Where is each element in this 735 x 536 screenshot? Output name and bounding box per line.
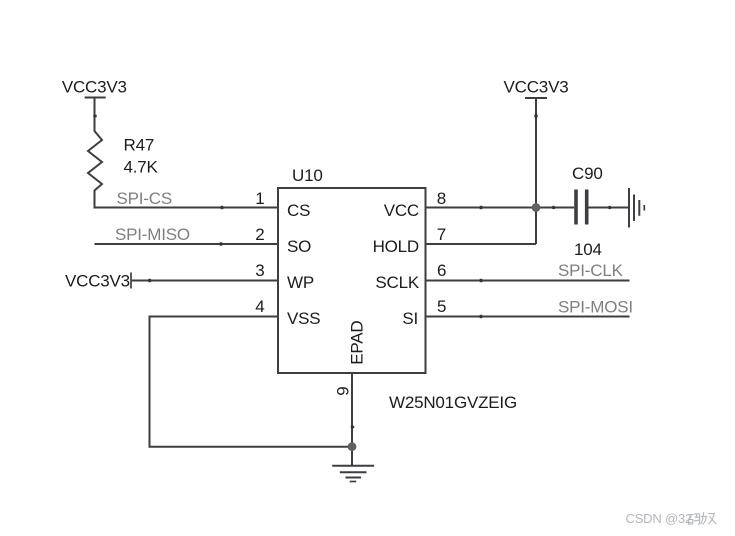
svg-text:1: 1 (255, 189, 264, 208)
svg-text:104: 104 (574, 240, 602, 259)
svg-text:EPAD: EPAD (348, 321, 367, 365)
svg-text:SCLK: SCLK (375, 273, 419, 292)
svg-text:VCC: VCC (384, 201, 419, 220)
svg-text:VSS: VSS (287, 309, 320, 328)
svg-text:SPI-MOSI: SPI-MOSI (558, 298, 633, 317)
svg-text:W25N01GVZEIG: W25N01GVZEIG (389, 393, 517, 412)
svg-text:4: 4 (255, 297, 264, 316)
svg-text:6: 6 (437, 261, 446, 280)
svg-text:SPI-CS: SPI-CS (117, 189, 172, 208)
svg-text:7: 7 (437, 225, 446, 244)
svg-text:HOLD: HOLD (373, 237, 419, 256)
svg-text:2: 2 (255, 225, 264, 244)
svg-text:9: 9 (334, 387, 353, 396)
svg-text:4.7K: 4.7K (124, 157, 159, 176)
svg-text:SO: SO (287, 237, 311, 256)
svg-text:VCC3V3: VCC3V3 (65, 272, 130, 291)
svg-text:VCC3V3: VCC3V3 (62, 77, 127, 96)
svg-text:U10: U10 (292, 166, 323, 185)
svg-text:SPI-MISO: SPI-MISO (115, 225, 190, 244)
svg-text:WP: WP (287, 273, 314, 292)
svg-text:5: 5 (437, 297, 446, 316)
svg-text:CSDN @32: CSDN @32 (626, 511, 693, 526)
svg-text:C90: C90 (572, 164, 603, 183)
svg-text:CS: CS (287, 201, 310, 220)
svg-text:8: 8 (437, 189, 446, 208)
svg-text:SI: SI (402, 309, 418, 328)
svg-text:R47: R47 (124, 135, 155, 154)
svg-text:SPI-CLK: SPI-CLK (558, 261, 624, 280)
svg-text:VCC3V3: VCC3V3 (504, 77, 569, 96)
svg-text:3: 3 (255, 261, 264, 280)
